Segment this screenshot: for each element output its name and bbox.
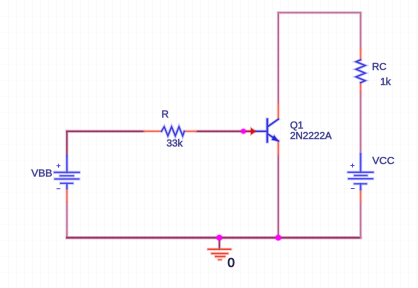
svg-text:0: 0	[228, 255, 235, 270]
svg-text:1k: 1k	[380, 77, 392, 88]
svg-text:VBB: VBB	[31, 167, 52, 179]
svg-text:2N2222A: 2N2222A	[290, 131, 332, 142]
svg-text:VCC: VCC	[372, 155, 395, 167]
svg-text:R: R	[162, 110, 169, 121]
svg-text:33k: 33k	[167, 138, 184, 149]
svg-text:Q1: Q1	[290, 121, 304, 132]
svg-text:RC: RC	[372, 62, 386, 73]
